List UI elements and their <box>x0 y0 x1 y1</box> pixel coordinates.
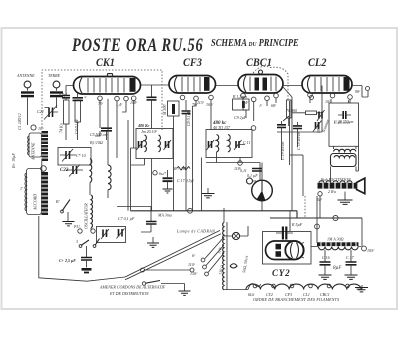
PU jack 1 <box>78 229 82 233</box>
tube CL2 pin 1 <box>308 93 313 98</box>
svg-text:CBC1: CBC1 <box>246 57 272 70</box>
speaker ground <box>344 192 346 200</box>
wire pin3 T1 down <box>122 101 128 211</box>
speaker cone <box>357 178 365 193</box>
bus junction 335 <box>333 215 338 220</box>
svg-text:480 Kc: 480 Kc <box>137 123 150 128</box>
antenna coupling cap <box>27 88 29 101</box>
tube CF3 envelope <box>169 76 216 94</box>
svg-text:C22: C22 <box>60 168 69 173</box>
CY2 cathode bar 2 <box>276 251 282 257</box>
CL2 stage box <box>329 103 359 146</box>
svg-text:C 19 40/cm: C 19 40/cm <box>280 141 285 160</box>
tube CK1 envelope <box>74 77 141 95</box>
IF transformer 1 box <box>136 129 173 159</box>
dashed vertical right of CY2 <box>304 196 306 217</box>
wires left resistors <box>66 122 78 140</box>
cap C25 <box>86 246 88 257</box>
svg-text:70.000: 70.000 <box>286 108 297 113</box>
filament junction dots <box>253 284 257 288</box>
junction on line <box>238 161 243 166</box>
cap under T1 left <box>73 98 84 101</box>
left resistor R1 <box>64 100 70 124</box>
cap C8 <box>182 111 191 114</box>
selector contact 3 <box>205 272 209 276</box>
switch row1 left contact <box>141 268 145 272</box>
tube CF3 pin 2 <box>194 96 199 101</box>
svg-text:1ᵛ: 1ᵛ <box>259 103 263 108</box>
tube CL2 pin 3 <box>348 95 353 100</box>
wire CBC1 pins down <box>243 98 276 121</box>
IF1 trimmer right <box>166 141 169 148</box>
speaker bar bumps <box>319 181 352 183</box>
svg-text:105ᵛ: 105ᵛ <box>206 102 214 107</box>
wire T1-T2 coupling down <box>151 85 153 97</box>
svg-text:B) /10Ω: B) /10Ω <box>90 140 103 145</box>
caps row mid right <box>277 125 286 128</box>
svg-text:R.7 2M: R.7 2M <box>173 166 186 171</box>
var cap pu2 <box>119 229 123 237</box>
wire C8 <box>185 100 187 211</box>
wire left rail <box>39 161 125 281</box>
tube CL2 grid lines <box>315 77 339 92</box>
svg-text:10ᵘ: 10ᵘ <box>38 126 44 131</box>
output transformer lower winding <box>331 154 357 167</box>
osc coil long winding <box>91 195 92 228</box>
svg-text:ANTENNE: ANTENNE <box>16 73 35 78</box>
tube CF3 anode bar <box>204 77 210 91</box>
choke right pin <box>362 246 367 251</box>
svg-text:6ω*: 6ω* <box>159 171 166 176</box>
wire CK1 to CF3 <box>141 84 170 86</box>
grid stopper box right of CF3 <box>233 99 250 110</box>
wire resistor leads <box>292 112 322 114</box>
wire IF1 bottom leads <box>131 159 145 166</box>
variable cap in box <box>66 151 70 159</box>
cap C5 <box>101 128 112 131</box>
svg-text:CF3: CF3 <box>183 57 202 70</box>
speaker pin <box>318 192 322 196</box>
svg-text:Lampe de CADRAN: Lampe de CADRAN <box>176 229 215 234</box>
svg-text:C 17: C 17 <box>346 255 355 260</box>
wire CBC1 anode right <box>283 87 292 211</box>
svg-text:AMENER CORDONS DE ALTERNATIF: AMENER CORDONS DE ALTERNATIF <box>99 285 166 290</box>
wire CL2 pins <box>331 99 350 103</box>
IF transformer 2 box <box>206 130 252 158</box>
wires caps under T1 <box>66 86 78 101</box>
resistor R7 zigzag <box>177 167 191 171</box>
wire CF3 to CBC1 <box>216 85 239 87</box>
variable cap C22a <box>49 108 53 118</box>
wire pin2 T1 down <box>116 101 118 158</box>
selector contact 1 <box>201 258 205 262</box>
variable cap C22b <box>73 166 77 174</box>
potentiometer CBC1 <box>287 100 292 118</box>
junction between coils <box>41 166 47 172</box>
svg-text:6ᵛ: 6ᵛ <box>192 253 196 258</box>
svg-text:B': B' <box>56 199 59 204</box>
IF1 coil B <box>159 135 161 152</box>
resistor box under CF3 <box>168 101 180 116</box>
heater switch loop <box>230 264 237 268</box>
accord coil outline box <box>27 169 42 215</box>
var cap pu1 <box>103 230 107 238</box>
bus right part <box>270 211 362 218</box>
tube CF3 left dome line <box>175 77 178 93</box>
cap C16 <box>324 250 326 262</box>
bus junction 190 <box>188 208 193 213</box>
power transformer winding <box>223 223 224 290</box>
small circled pin x311 <box>310 96 314 100</box>
ground under B <box>67 212 69 221</box>
resistor 70000 horizontal <box>306 111 317 115</box>
ground C17 <box>345 275 358 279</box>
earth coupling cap <box>56 88 58 101</box>
junction near choke left <box>315 224 320 229</box>
filament ground <box>357 285 363 289</box>
svg-text:110ᵛ: 110ᵛ <box>188 262 196 267</box>
wire x317 down to choke <box>316 196 318 243</box>
wire CBC1 grid drop <box>243 110 246 118</box>
cap C7 <box>146 222 157 225</box>
switch row2 blade <box>146 281 161 284</box>
tube CK1 top cap <box>107 74 113 77</box>
box around pu caps <box>97 227 126 243</box>
magic eye terminal <box>247 178 253 184</box>
tube CBC1 pin 2 <box>251 97 256 102</box>
dial cord diagonal 2 <box>125 234 221 280</box>
magic eye tube <box>252 180 273 201</box>
selector contact 2 <box>203 265 207 269</box>
IF1 coil A <box>145 135 147 152</box>
cap C17b dark <box>163 177 173 179</box>
magic eye inner line <box>261 181 263 192</box>
transformer taps diagonals <box>205 237 224 273</box>
wire bus to CY2 box <box>289 211 291 232</box>
svg-text:C 18 40/cm: C 18 40/cm <box>296 131 301 150</box>
svg-text:50/10: 50/10 <box>316 124 321 133</box>
svg-text:Jm 20.10⁶: Jm 20.10⁶ <box>141 129 158 134</box>
CY2 inner arcs <box>291 243 299 259</box>
tube CBC1 pin 3 <box>265 96 270 101</box>
dial cord diagonal 1 <box>125 230 220 277</box>
vertical left of R7 <box>151 159 153 211</box>
svg-text:POSTE ORA RU.56: POSTE ORA RU.56 <box>71 34 203 55</box>
filter choke loops <box>319 247 359 250</box>
wire transformer to box <box>334 146 357 149</box>
tube CBC1 pin 4 <box>274 93 279 98</box>
right rail x358 down <box>362 91 368 97</box>
earth terminal <box>53 81 60 88</box>
magic eye wedge <box>257 191 266 201</box>
wire pin4 T1 down to bus <box>133 101 135 148</box>
wire osc coil ends <box>90 183 91 232</box>
tube CBC1 pin 1 <box>241 93 246 98</box>
svg-text:MA 3mu: MA 3mu <box>157 213 172 218</box>
filter choke core <box>317 242 359 246</box>
tube CL2 envelope <box>302 76 352 94</box>
wire choke leads <box>311 246 362 248</box>
wire right bus down to choke <box>361 218 363 246</box>
svg-text:C 16: C 16 <box>322 255 330 260</box>
wire resistor down to bus <box>173 116 175 211</box>
wire IF2 bottom line <box>206 152 260 163</box>
svg-text:C4 0,1µF: C4 0,1µF <box>74 118 80 134</box>
wire eye to x303 <box>290 154 303 156</box>
ground C25 dark <box>82 268 92 271</box>
cap C17 <box>350 250 352 262</box>
cap C26 <box>343 111 346 119</box>
tube CK1 grid lines <box>88 78 124 93</box>
svg-text:SCHEMA DU PRINCIPE: SCHEMA DU PRINCIPE <box>211 38 299 49</box>
wire bus to transformer top <box>223 208 225 223</box>
vertical double wire x290 <box>289 101 291 165</box>
cap 0,1 CBC1 <box>252 169 262 172</box>
junction circle 34,127 <box>31 125 36 130</box>
antenna terminal <box>24 81 31 88</box>
wire CBC1 to CL2 <box>283 85 302 87</box>
CY2 cathode bar 1 <box>276 244 282 250</box>
tube CK1 pin 1 <box>98 96 103 101</box>
svg-text:ᶜ³: ᶜ³ <box>84 95 87 100</box>
left resistor R2 <box>75 100 81 122</box>
svg-text:C 11: C 11 <box>243 140 250 145</box>
wire transformer to lamp <box>224 226 248 236</box>
svg-text:CK1: CK1 <box>96 57 115 70</box>
box around C*10 <box>58 148 91 166</box>
switch row2 contact <box>142 282 145 285</box>
tube CBC1 envelope <box>238 75 283 94</box>
tube CF3 pin 1 <box>180 95 185 100</box>
wire y206 <box>117 207 151 222</box>
antenna coil outline box <box>29 133 42 157</box>
IF1 trimmer left <box>139 141 142 148</box>
IF2 coil B <box>228 135 230 152</box>
vertical x303 <box>302 155 304 196</box>
svg-text:OSCILLATEUR: OSCILLATEUR <box>84 203 89 229</box>
filament row humps <box>246 284 361 289</box>
svg-text:40 TO 157: 40 TO 157 <box>213 125 231 130</box>
tube CF3 grid lines <box>182 77 200 92</box>
wire eye bottom to bus <box>261 201 263 211</box>
tube CK1 anode bar <box>130 78 136 92</box>
IF2 trimmer right <box>236 141 239 148</box>
wire pin1 T1 down <box>95 101 107 140</box>
svg-text:CL2: CL2 <box>308 57 327 70</box>
svg-text:ET DE DISTRIBUTION: ET DE DISTRIBUTION <box>109 291 149 296</box>
svg-text:C8 0,1µF: C8 0,1µF <box>186 110 192 126</box>
ground under cap <box>163 189 173 193</box>
svg-text:TERRE: TERRE <box>48 73 61 78</box>
tube CL2 anode bar <box>344 77 350 91</box>
switch row1 wire <box>145 269 191 271</box>
oscillator coil L1 humps <box>90 159 92 183</box>
wire antenna down-left rail <box>28 101 57 125</box>
wire pot bottom <box>288 118 290 126</box>
tube CK1 left dome line <box>80 78 83 94</box>
output transformer top humps <box>334 149 356 151</box>
tube CL2 pin 2 <box>330 93 335 98</box>
svg-text:68ᵛ: 68ᵛ <box>271 103 277 108</box>
wire transformer bottom curve <box>224 284 261 290</box>
svg-text:0,11: 0,11 <box>240 168 247 174</box>
vertical right x201 <box>201 158 203 211</box>
trimmer left of box <box>319 112 322 119</box>
dashed shield box CK1 stage <box>42 70 162 130</box>
main bus left part <box>131 210 298 212</box>
dial lamp <box>232 232 239 239</box>
svg-text:C+ 2,5 µF: C+ 2,5 µF <box>59 258 76 263</box>
cap mid2 <box>293 126 302 129</box>
svg-text:B+ 10µF: B+ 10µF <box>11 153 16 168</box>
switch row1 right contact <box>190 268 194 272</box>
svg-text:50Ω, 50c/s: 50Ω, 50c/s <box>241 255 250 274</box>
svg-text:1M A 30Ω: 1M A 30Ω <box>327 237 344 242</box>
wire L2 stem <box>107 99 109 198</box>
tube CY2 envelope <box>266 241 304 260</box>
switch 3 contacts <box>81 239 100 246</box>
svg-text:ANTENNE: ANTENNE <box>31 142 36 161</box>
tube CBC1 left dome line <box>244 76 247 93</box>
ground row2 <box>179 291 191 295</box>
cap small above left resistors <box>62 96 70 98</box>
svg-text:C22: C22 <box>37 109 44 114</box>
accord coil hatched bar <box>42 172 49 215</box>
ground C16 <box>319 275 332 279</box>
pin top right <box>366 87 370 91</box>
tube CBC1 inner bars <box>255 78 260 91</box>
wire caps row bus <box>277 86 322 161</box>
svg-text:C 26 50/10: C 26 50/10 <box>334 120 350 125</box>
cap C20 <box>282 227 284 240</box>
dashed grid-cap lead CBC1 <box>253 66 288 101</box>
svg-text:115ᵛ: 115ᵛ <box>197 100 205 105</box>
wire pin 196 down <box>193 101 197 211</box>
svg-text:C7 0,1 µF: C7 0,1 µF <box>118 216 135 222</box>
svg-text:4ᵛ: 4ᵛ <box>245 100 249 105</box>
antenna coil hatched bar <box>42 131 49 161</box>
wire speaker pin down <box>319 196 321 218</box>
wire eye top <box>253 163 263 182</box>
pin under IF1 <box>153 171 157 175</box>
resistor M500 bar <box>172 104 175 114</box>
wire top right 98v <box>352 86 362 98</box>
IF2 coil A <box>217 135 219 152</box>
trimmer mid right <box>316 122 319 129</box>
PU jack 2 <box>91 229 95 233</box>
svg-text:C9 2µF: C9 2µF <box>234 115 247 120</box>
svg-text:1 R 5µF: 1 R 5µF <box>289 222 303 227</box>
svg-text:105ᵛ: 105ᵛ <box>367 248 375 253</box>
svg-text:M 500: M 500 <box>162 105 167 116</box>
ground mid 208 <box>207 188 209 193</box>
IF2 pin right <box>251 126 256 131</box>
switch B <box>62 200 70 212</box>
tube CBC1 grid lines <box>250 77 276 92</box>
wire left bus vertical x130 <box>131 148 138 211</box>
tube CK1 pin 4 <box>131 96 136 101</box>
transformer core line <box>226 222 228 290</box>
wire IF2 down right <box>259 163 261 181</box>
oscillator coil L2 humps <box>108 165 111 190</box>
tube CK1 pin 3 <box>124 96 129 101</box>
lower winding humps <box>334 156 355 158</box>
svg-text:1': 1' <box>20 186 23 191</box>
tube CF3 pin 3 <box>209 95 214 100</box>
svg-text:8µF: 8µF <box>333 266 342 271</box>
speaker field bar <box>318 183 357 189</box>
svg-text:74 Kn: 74 Kn <box>59 123 64 133</box>
CY2 anode circle <box>285 241 303 259</box>
svg-text:75ᵛ: 75ᵛ <box>98 101 104 106</box>
svg-text:P.U.: P.U. <box>73 224 81 229</box>
svg-text:C* 10: C* 10 <box>76 153 86 158</box>
CY2 chassis box <box>263 232 312 265</box>
tube CK1 pin 2 <box>115 96 120 101</box>
cap coupling <box>147 97 157 100</box>
svg-text:2 Rw: 2 Rw <box>328 189 336 194</box>
tube CL2 left dome line <box>308 77 311 93</box>
wire transformer bottom to speaker <box>331 146 359 183</box>
CY2 arrows <box>300 243 304 259</box>
tube CBC1 top cap <box>259 70 263 74</box>
svg-text:CY2: CY2 <box>272 268 290 278</box>
svg-text:ORDRE DE BRANCHEMENT DES F: ORDRE DE BRANCHEMENT DES FILAMENTS <box>253 297 339 302</box>
wire pin 211 down to IF2 <box>210 100 212 130</box>
grid stopper bar <box>242 101 245 108</box>
IF2 trimmer left <box>209 141 212 148</box>
svg-text:ACCORD: ACCORD <box>33 194 38 211</box>
wire CL2 pin1 drop <box>309 97 311 103</box>
ground mid 153 <box>152 237 154 243</box>
svg-text:C1 240/12: C1 240/12 <box>17 113 22 130</box>
svg-text:3: 3 <box>76 239 78 244</box>
svg-text:98ᵛ: 98ᵛ <box>355 89 361 94</box>
